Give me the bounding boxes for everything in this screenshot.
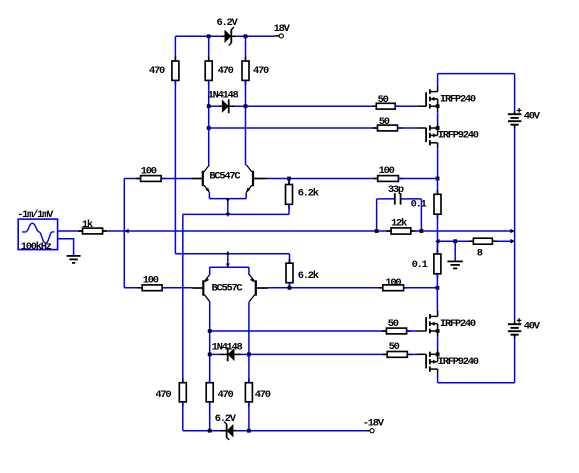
- svg-text:IRFP9240: IRFP9240: [438, 356, 479, 368]
- svg-text:-1m/1mV: -1m/1mV: [17, 209, 54, 221]
- svg-text:1N4148: 1N4148: [212, 341, 243, 353]
- svg-text:470: 470: [218, 65, 234, 77]
- svg-text:50: 50: [378, 94, 389, 106]
- svg-text:100: 100: [143, 274, 159, 286]
- svg-text:6.2k: 6.2k: [298, 270, 319, 282]
- svg-text:470: 470: [255, 389, 271, 401]
- svg-text:0.1: 0.1: [412, 259, 428, 271]
- svg-text:50: 50: [379, 116, 390, 128]
- svg-text:IRFP240: IRFP240: [440, 93, 476, 105]
- svg-text:100kHz: 100kHz: [21, 241, 52, 253]
- svg-text:50: 50: [389, 341, 400, 353]
- svg-text:100: 100: [141, 165, 157, 177]
- svg-text:6.2V: 6.2V: [217, 17, 239, 29]
- svg-text:33p: 33p: [388, 184, 404, 196]
- svg-text:1k: 1k: [82, 219, 93, 231]
- svg-text:470: 470: [218, 389, 234, 401]
- svg-text:100: 100: [385, 277, 401, 289]
- svg-text:50: 50: [388, 318, 399, 330]
- svg-text:6.2k: 6.2k: [298, 188, 319, 200]
- svg-text:470: 470: [253, 65, 269, 77]
- svg-text:-18V: -18V: [363, 417, 385, 429]
- svg-text:IRFP9240: IRFP9240: [438, 130, 479, 142]
- svg-text:IRFP240: IRFP240: [440, 318, 476, 330]
- svg-text:1N4148: 1N4148: [208, 90, 239, 102]
- svg-text:40V: 40V: [524, 111, 541, 123]
- svg-text:0.1: 0.1: [411, 199, 427, 211]
- svg-text:40V: 40V: [524, 321, 541, 333]
- svg-text:6.2V: 6.2V: [215, 413, 237, 425]
- svg-text:BC557C: BC557C: [212, 282, 243, 294]
- svg-text:BC547C: BC547C: [209, 171, 240, 183]
- svg-text:470: 470: [155, 389, 171, 401]
- svg-text:470: 470: [149, 65, 165, 77]
- svg-text:12k: 12k: [391, 217, 407, 229]
- svg-text:100: 100: [379, 165, 395, 177]
- svg-text:18V: 18V: [274, 23, 291, 35]
